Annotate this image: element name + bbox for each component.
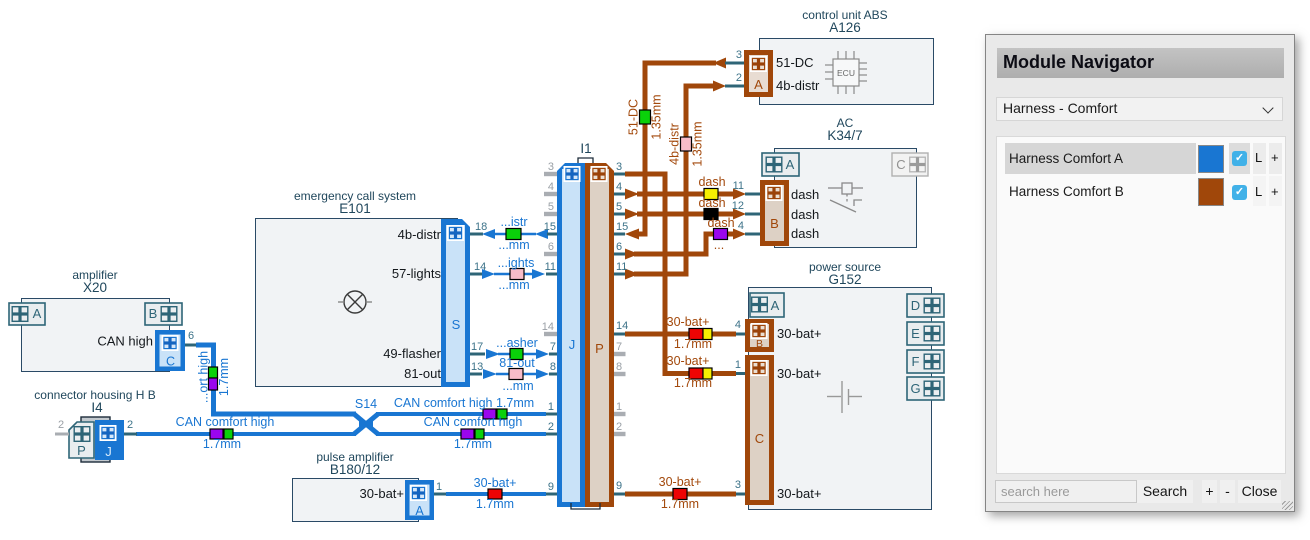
svg-text:1.7mm: 1.7mm: [476, 497, 514, 511]
svg-text:dash: dash: [707, 216, 734, 230]
svg-text:A126: A126: [829, 20, 861, 35]
svg-text:...mm: ...mm: [498, 278, 529, 292]
svg-text:4: 4: [735, 319, 741, 331]
svg-text:4b-distr: 4b-distr: [398, 227, 442, 242]
svg-text:2: 2: [616, 421, 622, 433]
svg-text:2: 2: [548, 421, 554, 433]
wire E101.S18 to I1.J15 (4b-distr): [470, 229, 557, 239]
svg-text:6: 6: [548, 241, 554, 253]
connector X20.B: [145, 303, 182, 325]
svg-text:dash: dash: [791, 187, 819, 202]
svg-text:2: 2: [127, 419, 133, 431]
wire color box pink on 4b-distr trunk: [681, 137, 692, 151]
svg-text:8: 8: [616, 361, 622, 373]
svg-text:15: 15: [616, 221, 628, 233]
wire color box green on 51-DC trunk: [640, 110, 651, 124]
brown net P3 to G152.C1 (30-bat+): [614, 174, 745, 374]
L button B: [1253, 176, 1266, 206]
wire net CAN high: X20.C6 to S14: [185, 345, 356, 414]
Module Navigator panel: [985, 34, 1295, 512]
svg-text:3: 3: [736, 49, 742, 61]
brown net P9 to G152.C3 (30-bat+): [614, 493, 745, 496]
connector AC.A (teal): [762, 153, 799, 176]
svg-text:7: 7: [616, 341, 622, 353]
svg-text:17: 17: [471, 341, 483, 353]
swatch blue A: [1198, 145, 1224, 173]
svg-text:A: A: [415, 504, 424, 518]
svg-text:1.35mm: 1.35mm: [650, 94, 664, 139]
svg-text:57-lights: 57-lights: [392, 266, 442, 281]
box control unit ABS A126: [760, 8, 934, 105]
svg-text:6: 6: [188, 330, 194, 342]
svg-text:9: 9: [548, 481, 554, 493]
wire E101.S14 to I1.J11 (57-lights): [470, 269, 557, 279]
pin stub I4 right (pin 2): [124, 433, 137, 436]
svg-text:E101: E101: [339, 201, 371, 216]
wire color box purple: [714, 229, 728, 240]
svg-text:11: 11: [545, 261, 556, 273]
wire color box yellow: [704, 189, 718, 200]
svg-text:F: F: [912, 354, 920, 369]
svg-text:30-bat+: 30-bat+: [474, 476, 517, 490]
svg-text:CAN high: CAN high: [97, 334, 153, 349]
svg-text:C: C: [166, 355, 175, 369]
wire S14 to I1.J2: [376, 432, 546, 436]
svg-text:1: 1: [616, 401, 622, 413]
svg-text:3: 3: [616, 161, 622, 173]
connector G152.C (brown): [745, 355, 774, 505]
plus button B: [1269, 176, 1282, 206]
svg-text:A: A: [754, 77, 763, 92]
svg-text:...: ...: [714, 238, 724, 252]
splice S14 crossing: [354, 414, 378, 434]
node I1 top bracket: [578, 141, 593, 163]
connector I1.P (brown bar): [585, 163, 614, 507]
svg-text:E: E: [911, 326, 920, 341]
svg-text:...asher: ...asher: [496, 336, 538, 350]
svg-text:30-bat+: 30-bat+: [667, 315, 710, 329]
ECU chip icon in A126: [825, 51, 867, 94]
svg-text:1.7mm: 1.7mm: [203, 437, 241, 451]
svg-text:...mm: ...mm: [498, 238, 529, 252]
gray pin numbers J left: [542, 161, 554, 333]
svg-text:B: B: [756, 338, 763, 350]
svg-text:4b-distr: 4b-distr: [668, 123, 682, 165]
box pulse amplifier B180/12: [293, 450, 419, 522]
minus button: [1220, 480, 1235, 503]
module list: [996, 136, 1286, 474]
svg-text:C: C: [755, 431, 764, 446]
wire color box green on J1 wire: [497, 409, 507, 419]
svg-text:...ort high: ...ort high: [197, 351, 211, 403]
unconnected gray stubs J left side pins 3,4,5,6,14: [544, 174, 557, 334]
svg-text:7: 7: [550, 341, 556, 353]
connector I1.J (blue bar): [557, 163, 585, 507]
svg-text:2: 2: [58, 419, 64, 431]
wire color box purple on CAN high vertical: [209, 378, 218, 390]
wire color box green: [510, 349, 523, 360]
svg-text:30-bat+: 30-bat+: [777, 326, 821, 341]
svg-text:CAN comfort high: CAN comfort high: [424, 415, 523, 429]
svg-text:4: 4: [616, 181, 622, 193]
wire S14 to I1.J1: [376, 412, 546, 416]
svg-text:5: 5: [616, 201, 622, 213]
svg-text:12: 12: [732, 200, 744, 212]
svg-text:dash: dash: [698, 196, 725, 210]
wire color box purple on J1 wire: [483, 409, 496, 419]
wire color box purple on I4 wire: [210, 429, 223, 439]
svg-text:51-DC: 51-DC: [776, 55, 814, 70]
L button A: [1253, 143, 1266, 174]
brown net P14 to G152.B4 (30-bat+): [611, 333, 745, 336]
wire color box purple on J2 wire: [461, 429, 474, 439]
svg-text:4b-distr: 4b-distr: [776, 78, 820, 93]
wire color box green on I4 wire: [224, 429, 233, 439]
wire color box red on C3 wire: [673, 489, 687, 500]
close button: [1238, 480, 1281, 503]
svg-text:ECU: ECU: [837, 68, 855, 78]
connector E101.S (blue bar): [441, 219, 470, 387]
svg-text:14: 14: [542, 321, 554, 333]
brown net P11 to ABS.A2 (4b-distr): [614, 81, 744, 280]
svg-text:15: 15: [544, 221, 556, 233]
resize grip: [1282, 501, 1293, 510]
wire 30-bat+ B180.A1 to I1.J9: [434, 493, 557, 496]
svg-text:6: 6: [616, 241, 622, 253]
wire color box green on CAN high vertical: [209, 367, 218, 378]
gray pin numbers P right: [616, 341, 622, 433]
svg-text:1: 1: [436, 481, 442, 493]
connector X20.A: [9, 303, 45, 325]
wire color box yellow on C1 wire: [703, 368, 712, 379]
connector housing I4 outline: [34, 388, 155, 462]
svg-text:S14: S14: [355, 397, 377, 411]
connector G152.G (teal): [907, 377, 944, 400]
relay icon in K34/7: [828, 183, 863, 212]
svg-text:B180/12: B180/12: [330, 462, 380, 477]
svg-text:8: 8: [550, 361, 556, 373]
svg-text:4: 4: [548, 181, 554, 193]
wire color box green on J2 wire: [475, 429, 484, 439]
svg-text:P: P: [595, 341, 604, 356]
swatch brown B: [1198, 178, 1224, 206]
svg-text:13: 13: [471, 361, 483, 373]
svg-text:18: 18: [475, 221, 487, 233]
battery icon in G152: [827, 381, 862, 413]
unconnected gray stubs P right side pins 7,8,1,2: [614, 354, 626, 434]
search button: [1137, 480, 1193, 503]
svg-text:14: 14: [474, 261, 486, 273]
connector I4.P (gray): [69, 422, 94, 458]
row Harness Comfort A: [1005, 143, 1196, 174]
svg-text:dash: dash: [791, 226, 819, 241]
svg-text:CAN comfort high: CAN comfort high: [176, 415, 275, 429]
wire E101.S17 to I1.J7 (49-flasher): [470, 349, 557, 359]
box AC K34/7: [775, 116, 917, 248]
box amplifier X20: [22, 268, 170, 372]
svg-text:J: J: [105, 444, 112, 459]
connector G152.B (brown): [745, 319, 774, 352]
svg-text:I4: I4: [91, 400, 103, 415]
svg-text:X20: X20: [83, 280, 107, 295]
connector AC.C (gray): [892, 153, 928, 176]
svg-text:A: A: [33, 306, 42, 321]
wire color box green: [506, 229, 521, 240]
svg-text:1.7mm: 1.7mm: [661, 497, 699, 511]
svg-text:J: J: [569, 337, 576, 352]
wire color box red on 30-bat+ wire: [488, 489, 502, 499]
checkbox B: [1232, 185, 1247, 200]
brown net P4 to AC.B11 (dash yellow): [614, 189, 760, 200]
svg-text:49-flasher: 49-flasher: [383, 346, 441, 361]
pin stub J2: [546, 433, 557, 436]
svg-text:K34/7: K34/7: [827, 128, 862, 143]
svg-text:3: 3: [735, 479, 741, 491]
svg-text:CAN comfort high 1.7mm: CAN comfort high 1.7mm: [394, 396, 534, 410]
panel header: [997, 48, 1284, 78]
svg-text:2: 2: [736, 72, 742, 84]
svg-text:81-out: 81-out: [499, 356, 535, 370]
svg-text:B: B: [770, 216, 779, 231]
svg-text:11: 11: [733, 180, 744, 192]
harness dropdown: [996, 97, 1283, 121]
wire color box red on B4 wire: [689, 329, 703, 340]
svg-text:30-bat+: 30-bat+: [777, 486, 821, 501]
svg-text:30-bat+: 30-bat+: [360, 486, 404, 501]
wire color box pink: [510, 269, 524, 280]
brown net P5 to AC.B12 (dash black): [614, 209, 760, 220]
svg-text:P: P: [77, 443, 86, 458]
svg-text:1.7mm: 1.7mm: [454, 437, 492, 451]
pin stub J1: [546, 413, 557, 416]
svg-text:30-bat+: 30-bat+: [667, 354, 710, 368]
svg-text:14: 14: [616, 320, 628, 332]
connector ABS.A (brown): [744, 50, 773, 97]
checkbox A: [1229, 143, 1250, 174]
svg-text:5: 5: [548, 201, 554, 213]
connector X20.C (blue, pin 6): [155, 330, 185, 371]
svg-text:30-bat+: 30-bat+: [659, 475, 702, 489]
brown net P15 to ABS.A3 (51-DC): [614, 58, 744, 240]
lamp icon in E101: [338, 291, 372, 313]
wire I4 to S14: [136, 432, 356, 436]
svg-text:9: 9: [616, 480, 622, 492]
wire color box black: [704, 209, 718, 220]
svg-text:C: C: [896, 157, 905, 172]
connector G152.E (teal): [907, 322, 944, 345]
svg-text:1: 1: [548, 401, 554, 413]
svg-text:A: A: [786, 157, 795, 172]
I1 bottom bracket: [571, 503, 600, 509]
svg-text:3: 3: [548, 161, 554, 173]
plus button: [1202, 480, 1217, 503]
svg-text:I1: I1: [580, 141, 591, 156]
svg-text:D: D: [911, 298, 920, 313]
svg-text:...ights: ...ights: [498, 256, 535, 270]
box emergency call system E101: [256, 189, 458, 387]
svg-text:81-out: 81-out: [404, 366, 441, 381]
wire color box pink: [509, 369, 523, 380]
svg-text:1: 1: [735, 359, 741, 371]
svg-text:A: A: [771, 298, 780, 313]
svg-text:B: B: [149, 306, 158, 321]
svg-text:dash: dash: [698, 175, 725, 189]
brown net P6 to AC.B4 (dash purple): [614, 229, 760, 260]
connector B180.A (blue, pin 1): [405, 480, 434, 520]
svg-text:4: 4: [738, 220, 744, 232]
connector G152.F (teal): [907, 350, 944, 373]
wire color box yellow on B4 wire: [703, 329, 712, 340]
row Harness Comfort B: [1005, 176, 1196, 206]
wire color box red on C1 wire: [689, 368, 703, 379]
box power source G152: [749, 260, 932, 510]
svg-text:S: S: [452, 317, 461, 332]
svg-text:dash: dash: [791, 207, 819, 222]
svg-text:...istr: ...istr: [500, 215, 527, 229]
wire E101.S13 to I1.J8 (81-out): [470, 369, 557, 379]
connector I4.J (blue, pin 2): [95, 420, 124, 460]
svg-text:G152: G152: [828, 272, 861, 287]
svg-text:...mm: ...mm: [502, 379, 533, 393]
svg-text:1.7mm: 1.7mm: [674, 337, 712, 351]
svg-text:51-DC: 51-DC: [627, 99, 641, 135]
search input: [995, 480, 1137, 503]
connector G152.D (teal): [907, 294, 944, 317]
svg-text:11: 11: [616, 261, 627, 273]
pin stub I4 left (gray, pin 2): [55, 433, 69, 436]
svg-text:1.7mm: 1.7mm: [674, 376, 712, 390]
svg-text:30-bat+: 30-bat+: [777, 366, 821, 381]
svg-text:1.7mm: 1.7mm: [217, 358, 231, 396]
connector G152.A (teal): [750, 293, 784, 317]
svg-text:1.35mm: 1.35mm: [691, 121, 705, 166]
svg-text:G: G: [910, 381, 920, 396]
connector AC.B (brown): [760, 180, 789, 246]
plus button A: [1269, 143, 1282, 174]
